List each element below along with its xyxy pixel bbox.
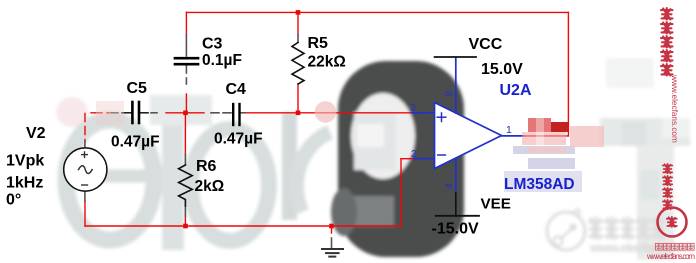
svg-text:0.47µF: 0.47µF [214, 131, 263, 148]
svg-text:1: 1 [506, 124, 512, 136]
svg-text:1Vpk: 1Vpk [6, 153, 44, 170]
svg-text:U2A: U2A [500, 82, 532, 99]
svg-text:1kHz: 1kHz [6, 175, 43, 192]
svg-text:R6: R6 [196, 158, 217, 175]
svg-text:3: 3 [410, 102, 416, 114]
svg-text:2kΩ: 2kΩ [195, 178, 225, 195]
svg-text:15.0V: 15.0V [481, 61, 523, 78]
svg-text:V2: V2 [26, 125, 46, 142]
svg-text:C4: C4 [226, 81, 247, 98]
svg-text:22kΩ: 22kΩ [308, 54, 346, 71]
svg-text:VEE: VEE [481, 196, 511, 213]
svg-text:www.elecfans.com: www.elecfans.com [670, 74, 679, 143]
svg-text:VCC: VCC [469, 36, 503, 53]
svg-text:8: 8 [443, 91, 455, 97]
svg-text:-15.0V: -15.0V [432, 221, 479, 238]
svg-text:0.47µF: 0.47µF [111, 134, 160, 151]
svg-text:2: 2 [411, 148, 417, 160]
svg-text:LM358AD: LM358AD [504, 176, 575, 193]
svg-text:C3: C3 [202, 36, 223, 53]
svg-text:0.1µF: 0.1µF [202, 52, 242, 69]
svg-text:R5: R5 [308, 35, 329, 52]
svg-text:www.elecfans.com: www.elecfans.com [646, 252, 695, 261]
svg-text:0°: 0° [6, 192, 21, 209]
svg-text:C5: C5 [127, 80, 148, 97]
svg-text:4: 4 [443, 183, 455, 189]
